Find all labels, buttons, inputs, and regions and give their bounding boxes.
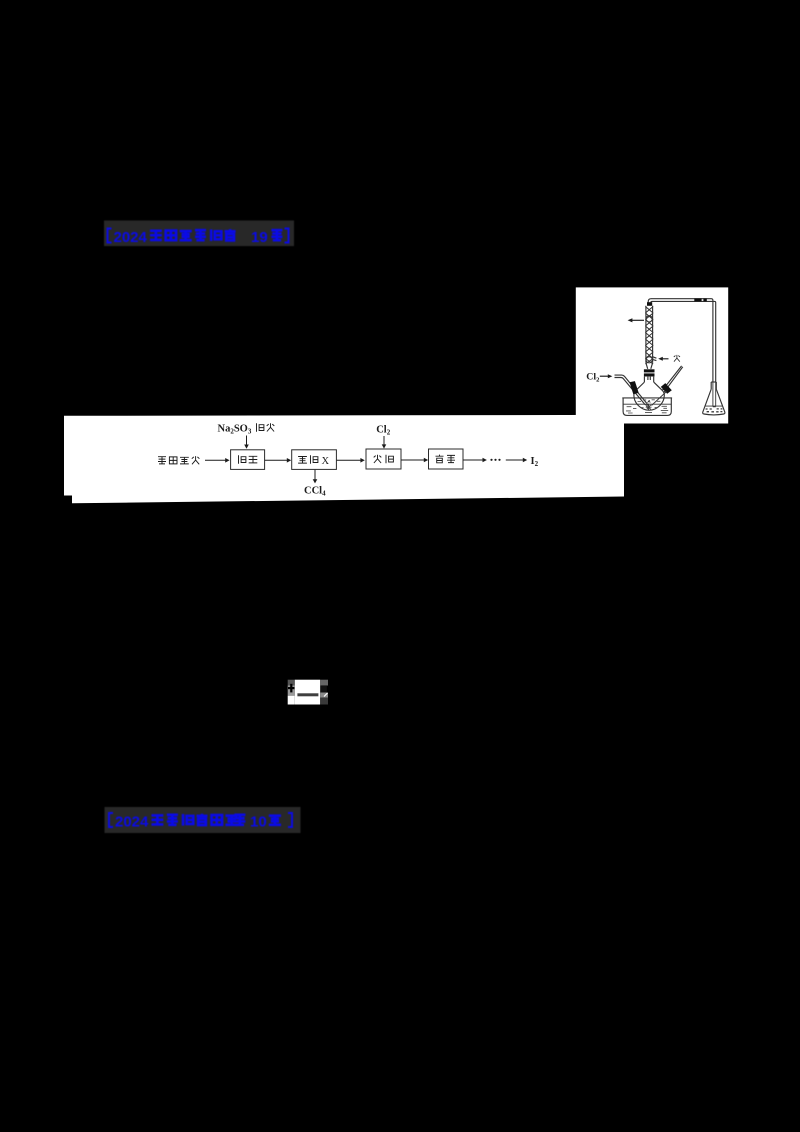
condenser bottom taper — [646, 363, 653, 369]
wire arrow 4 — [401, 459, 424, 461]
top bent delivery tube from condenser to conical flask — [648, 299, 713, 382]
gas-out arrow at condenser top — [632, 319, 645, 321]
heading 2 highlight + blue title text — [100, 804, 308, 837]
wire arrow 5 — [463, 459, 483, 461]
arrow down to CCl4 — [314, 470, 316, 480]
wire arrow 3 — [337, 459, 361, 461]
dotted liquid in conical flask — [706, 409, 723, 412]
right neck tube with rod — [662, 366, 683, 392]
bubbling tip marks inside flask — [646, 404, 652, 411]
ellipsis dots — [490, 459, 500, 461]
wire arrow 2 — [265, 459, 288, 461]
conical flask neck rim — [711, 381, 716, 383]
water bath dish — [623, 398, 671, 416]
wire arrow 6 to I2 — [506, 459, 524, 461]
flowchart image block — [63, 413, 626, 505]
box 氧化 — [366, 449, 401, 469]
label 含碘废液 — [158, 456, 199, 464]
svg-text:2024: 2024 — [115, 814, 149, 831]
black joint band condenser to flask — [644, 369, 655, 372]
box 富集 — [429, 449, 464, 469]
water-in side nub — [653, 357, 657, 361]
box 还原 — [231, 450, 265, 470]
condenser spiral lattice — [645, 307, 653, 365]
conical flask body — [703, 389, 725, 415]
water arrow — [662, 358, 669, 360]
inner delivery tube end — [713, 382, 716, 407]
wire arrow 1 — [205, 459, 226, 461]
svg-text:2024: 2024 — [114, 229, 148, 246]
shared pseudo-glyph defs — [0, 0, 1, 1]
svg-text:X: X — [322, 456, 330, 467]
svg-text:Na2SO3: Na2SO3 — [218, 424, 252, 436]
white background of scanned flow image — [64, 415, 624, 503]
arrow down into box 氧化 — [383, 436, 385, 445]
rod going into flask — [652, 392, 667, 406]
水 label — [674, 355, 680, 362]
small cropped formula box — [286, 678, 330, 706]
black pinch mark on tube — [694, 298, 707, 301]
water surface line — [623, 403, 671, 405]
right neck black stopper — [661, 383, 672, 394]
heading 1 highlight + blue title text — [100, 217, 302, 249]
condenser outer tube — [646, 306, 653, 363]
label Na2SO3 solution — [218, 424, 252, 436]
left neck black stopper — [630, 381, 639, 394]
box 操作X — [292, 450, 337, 470]
liquid line in conical flask — [705, 405, 722, 407]
svg-text:10: 10 — [250, 814, 267, 831]
left neck tube (Cl2 inlet) going into liquid — [615, 375, 647, 405]
Cl2 arrow — [600, 375, 609, 377]
water hatch dashes — [626, 400, 668, 413]
condenser top stopper — [647, 302, 652, 306]
svg-text:19: 19 — [251, 229, 268, 246]
three-neck flask body — [634, 382, 664, 410]
flask centre neck — [644, 377, 653, 383]
apparatus image block — [575, 287, 729, 424]
arrow down into box 还原 — [246, 436, 248, 446]
